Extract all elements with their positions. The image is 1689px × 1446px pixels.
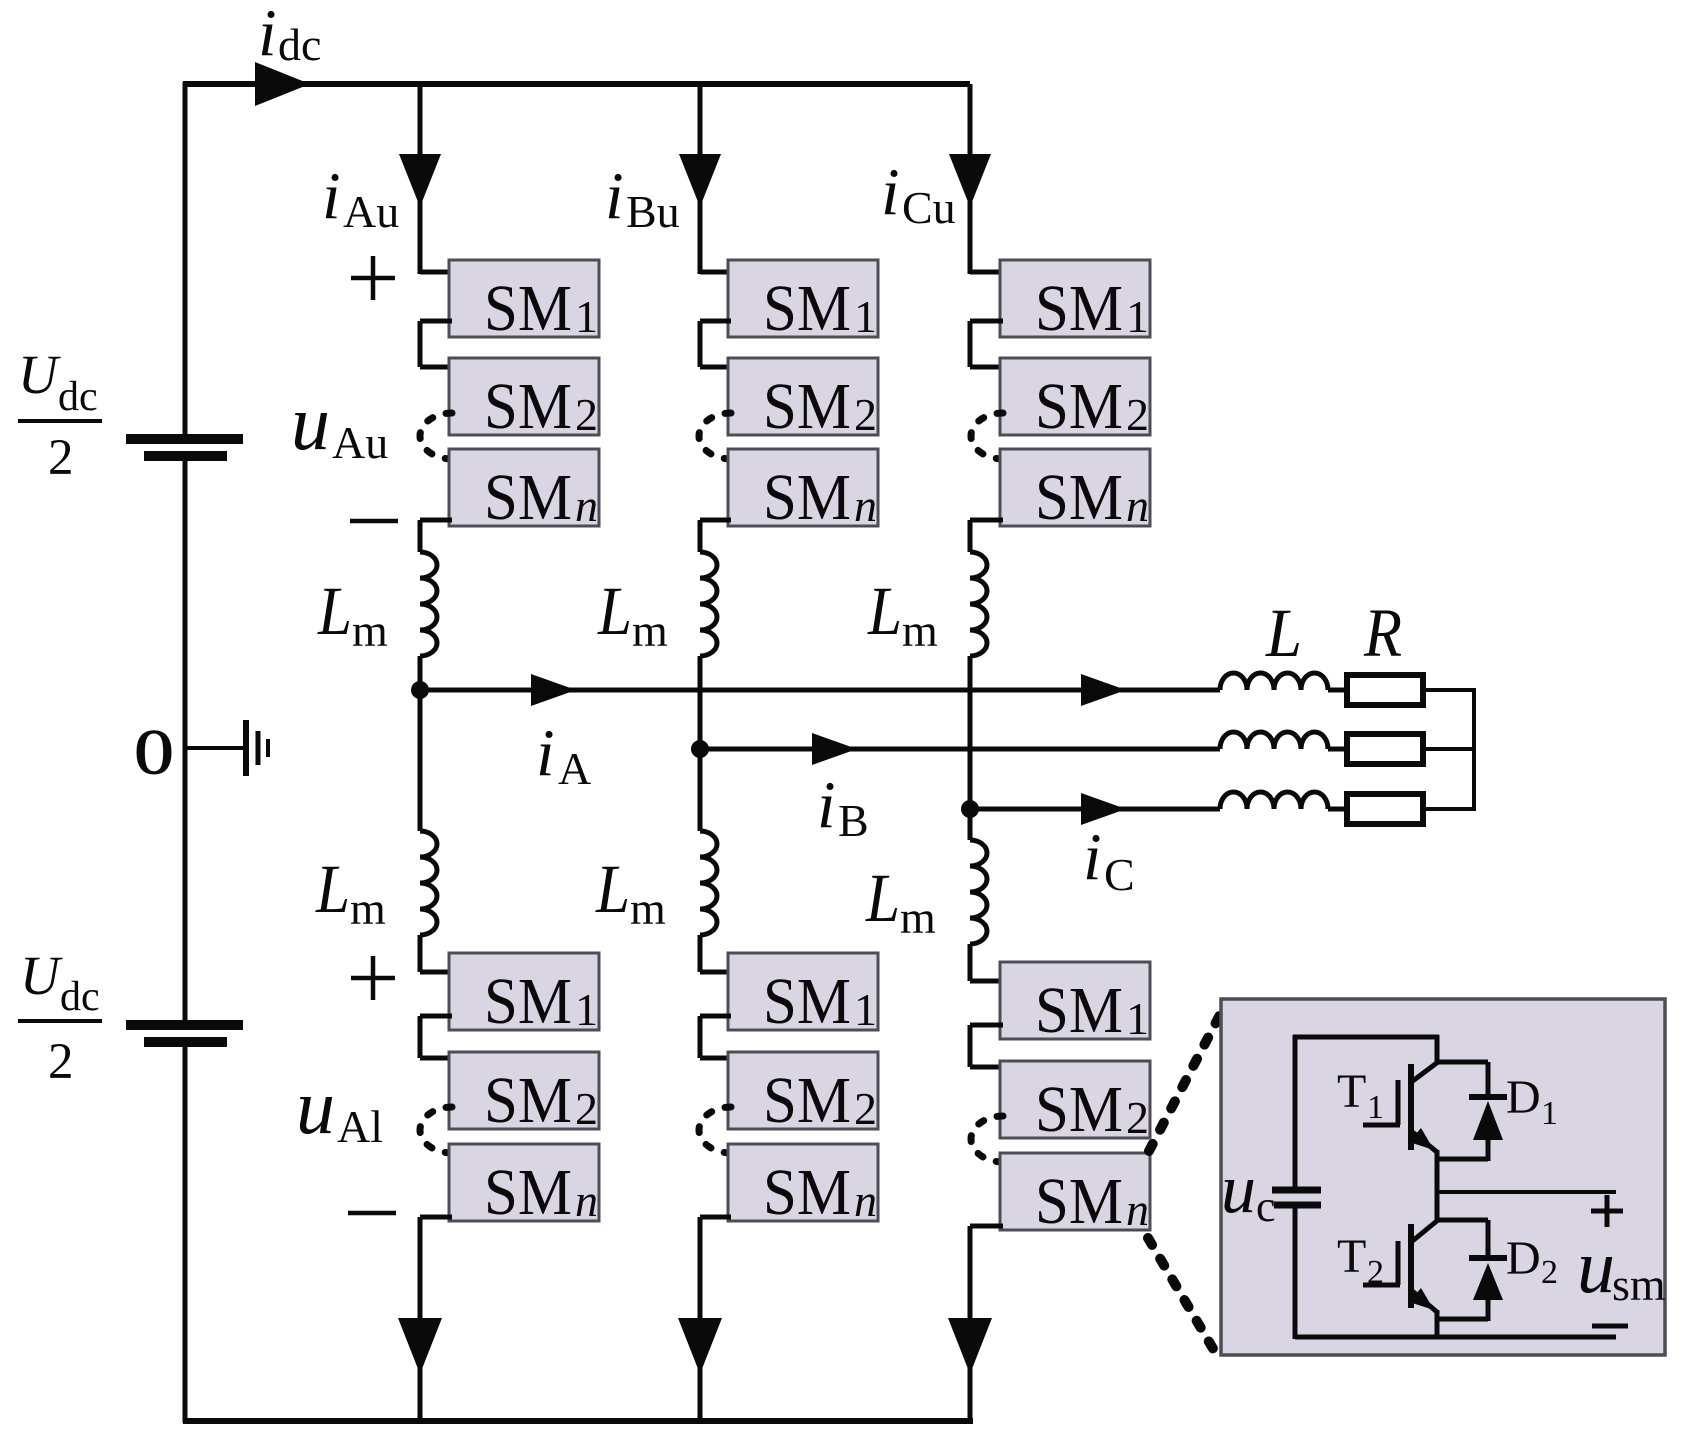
submodule SM1 lower A: [449, 953, 599, 1030]
wire SM1-SM2 upper C: [970, 319, 1003, 324]
svg-text:1: 1: [1367, 1089, 1384, 1126]
wire R to right bus A: [1423, 688, 1476, 692]
svg-text:u: u: [1221, 1151, 1256, 1228]
inductor Lm upper A: [420, 552, 437, 656]
svg-text:SM: SM: [484, 965, 572, 1038]
wire L to R C: [1328, 807, 1347, 812]
current arrow i_Cu: [949, 154, 991, 207]
dashed link SM2-SMn lower C: [971, 1116, 1003, 1162]
svg-text:1: 1: [1541, 1095, 1558, 1132]
wire SM1-SM2 upper A: [420, 319, 452, 324]
inductor Lm lower C: [970, 840, 987, 944]
svg-text:SM: SM: [763, 965, 851, 1038]
wire SMn to inductor upper B: [700, 518, 731, 523]
inset wire bottom rail: [1295, 1335, 1616, 1340]
dashed link SM2-SMn upper A: [420, 413, 452, 459]
svg-text:SM: SM: [484, 370, 572, 443]
transistor T2 emitter lead: [1435, 1310, 1440, 1339]
svg-text:1: 1: [1126, 993, 1149, 1044]
transistor T1 channel bar: [1408, 1064, 1414, 1150]
svg-text:1: 1: [575, 984, 598, 1035]
inductor L output B: [1220, 732, 1328, 749]
svg-text:SM: SM: [763, 272, 851, 345]
svg-text:2: 2: [854, 389, 877, 440]
resistor R output B: [1347, 734, 1423, 764]
svg-text:A: A: [558, 743, 591, 794]
svg-text:T: T: [1337, 1065, 1366, 1118]
svg-text:2: 2: [48, 430, 74, 486]
diode D2 lower lead: [1486, 1300, 1491, 1321]
wire R to right bus C: [1423, 807, 1476, 811]
svg-text:L: L: [315, 851, 350, 927]
current arrow i_Bu: [679, 154, 721, 207]
current arrow i_A: [531, 674, 576, 706]
wire node to inductor lower C: [968, 809, 973, 840]
svg-text:U: U: [20, 945, 63, 1006]
transistor T1 gate: [1396, 1080, 1401, 1125]
svg-text:i: i: [536, 716, 555, 790]
wire SMn to bottom bus A: [420, 1215, 452, 1220]
dashed link SM2-SMn lower A: [420, 1107, 452, 1153]
wire phase C upper arm from bus: [968, 84, 973, 274]
svg-text:i: i: [258, 0, 277, 70]
svg-text:2: 2: [575, 1083, 598, 1134]
wire L to R B: [1328, 747, 1347, 752]
resistor R output A: [1347, 675, 1423, 705]
svg-text:SM: SM: [484, 461, 572, 534]
svg-text:m: m: [900, 892, 936, 943]
wire output phase B: [700, 747, 1220, 752]
svg-text:SM: SM: [763, 461, 851, 534]
wire inductor to node A: [418, 656, 423, 690]
svg-text:L: L: [595, 851, 630, 927]
diode D1 lower lead: [1486, 1140, 1491, 1161]
current arrow phase A at load: [1081, 674, 1126, 706]
svg-text:U: U: [18, 344, 61, 405]
dashed pointer upper: [1149, 1009, 1223, 1151]
label + upper arm A: [351, 276, 395, 281]
submodule SMn upper A: [449, 449, 599, 526]
svg-text:L: L: [317, 573, 352, 649]
wire SM1-SM2 lower B: [700, 1014, 731, 1019]
svg-text:SM: SM: [1035, 272, 1123, 345]
label + lower arm A: [351, 976, 395, 981]
transistor T1 collector lead: [1435, 1035, 1440, 1064]
svg-text:SM: SM: [1035, 1073, 1123, 1146]
node A junction: [411, 681, 429, 699]
wire SM1-SM2 upper B: [700, 319, 731, 324]
wire R to right bus B: [1423, 747, 1476, 751]
wire bottom DC bus: [183, 1418, 973, 1424]
inductor L output C: [1220, 792, 1328, 809]
submodule SM2 lower C: [1000, 1061, 1150, 1138]
diode D1 branch: [1435, 1060, 1488, 1065]
wire inductor to SM1 lower B: [698, 935, 703, 972]
svg-text:Au: Au: [343, 186, 399, 237]
capacitor uc plates: [1272, 1187, 1321, 1194]
capacitor Udc/2 upper plate long: [126, 434, 243, 444]
submodule SMn upper C: [1000, 449, 1150, 526]
svg-text:n: n: [854, 480, 877, 531]
resistor R output C: [1347, 794, 1423, 824]
dashed link SM2-SMn upper B: [699, 413, 731, 459]
dashed link SM2-SMn lower B: [699, 1107, 731, 1153]
svg-text:SM: SM: [484, 1064, 572, 1137]
inductor Lm upper B: [700, 552, 717, 656]
transistor T1 emitter lead: [1435, 1150, 1440, 1194]
svg-text:2: 2: [854, 1083, 877, 1134]
wire SMn to inductor upper C: [970, 518, 1003, 523]
svg-text:m: m: [902, 605, 938, 656]
svg-text:n: n: [1126, 480, 1149, 531]
wire inductor to node C: [968, 656, 973, 809]
svg-text:D: D: [1506, 1071, 1541, 1124]
submodule SMn upper B: [728, 449, 878, 526]
submodule SM1 lower C: [1000, 962, 1150, 1039]
transistor T2 collector lead: [1435, 1190, 1440, 1222]
svg-text:B: B: [838, 795, 869, 846]
wire left DC bus middle: [183, 461, 188, 1020]
inductor L output A: [1220, 673, 1328, 690]
diode D2 cathode bar: [1469, 1255, 1507, 1261]
svg-text:2: 2: [48, 1034, 74, 1090]
svg-text:SM: SM: [1035, 370, 1123, 443]
current arrow i_dc: [255, 62, 310, 106]
svg-text:dc: dc: [58, 374, 98, 420]
wire node to inductor lower A: [418, 690, 423, 831]
wire output phase C: [970, 807, 1220, 812]
svg-text:m: m: [350, 883, 386, 934]
inset submodule box: [1221, 999, 1665, 1355]
svg-text:c: c: [1256, 1182, 1276, 1231]
svg-text:SM: SM: [484, 1156, 572, 1229]
svg-text:R: R: [1363, 595, 1402, 671]
wire into SM1 upper A: [420, 270, 452, 275]
svg-text:O: O: [134, 716, 174, 789]
svg-text:i: i: [1083, 820, 1102, 894]
wire output phase A: [420, 688, 1220, 693]
svg-text:i: i: [605, 159, 624, 233]
capacitor Udc/2 upper plate short: [144, 451, 227, 461]
svg-text:L: L: [1265, 595, 1302, 671]
svg-text:2: 2: [1367, 1254, 1384, 1291]
wire right return bus: [1472, 690, 1476, 809]
current arrow i_C: [1081, 793, 1126, 825]
svg-text:2: 2: [1126, 389, 1149, 440]
label + output: [1591, 1209, 1623, 1214]
svg-text:SM: SM: [763, 370, 851, 443]
inductor Lm upper C: [970, 552, 987, 656]
inset wire output mid: [1437, 1190, 1616, 1194]
inset wire capacitor bottom lead: [1293, 1208, 1298, 1339]
inset wire top rail: [1293, 1035, 1439, 1040]
transistor T2 emitter: [1411, 1290, 1437, 1312]
svg-text:dc: dc: [278, 19, 321, 70]
current arrow i_B: [812, 733, 857, 765]
submodule SM1 upper B: [728, 260, 878, 337]
transistor T1 emitter: [1411, 1131, 1437, 1152]
svg-text:1: 1: [1126, 291, 1149, 342]
inset wire capacitor top lead: [1293, 1035, 1298, 1188]
svg-text:sm: sm: [1612, 1259, 1666, 1310]
svg-text:i: i: [322, 159, 341, 233]
label - lower arm A: [348, 1211, 396, 1216]
svg-text:i: i: [817, 768, 836, 842]
submodule SMn lower C: [1000, 1153, 1150, 1230]
svg-text:dc: dc: [60, 974, 100, 1020]
current arrow i_Au: [399, 154, 441, 207]
submodule SM2 upper A: [449, 358, 599, 435]
label - output: [1592, 1324, 1628, 1329]
diode D2 branch: [1435, 1218, 1488, 1223]
svg-text:Bu: Bu: [626, 186, 680, 237]
transistor T2 gate: [1396, 1241, 1401, 1285]
wire into SM1 upper B: [700, 270, 731, 275]
diode D1 cathode bar: [1469, 1094, 1507, 1100]
svg-text:i: i: [881, 155, 900, 229]
svg-text:n: n: [575, 480, 598, 531]
svg-text:C: C: [1104, 849, 1135, 900]
wire into SM1 upper C: [970, 270, 1003, 275]
wire left DC bus lower: [183, 1047, 188, 1423]
submodule SM2 lower A: [449, 1052, 599, 1129]
wire top DC bus: [183, 81, 970, 87]
submodule SMn lower A: [449, 1144, 599, 1221]
wire SMn to bottom bus C: [970, 1224, 1003, 1229]
dashed link SM2-SMn upper C: [971, 413, 1003, 459]
submodule SM2 lower B: [728, 1052, 878, 1129]
svg-text:SM: SM: [1035, 1165, 1123, 1238]
submodule SM1 upper C: [1000, 260, 1150, 337]
svg-text:n: n: [854, 1175, 877, 1226]
wire node to inductor lower B: [698, 749, 703, 831]
ground symbol: [243, 720, 249, 776]
svg-text:SM: SM: [1035, 974, 1123, 1047]
svg-text:SM: SM: [763, 1156, 851, 1229]
svg-text:1: 1: [854, 984, 877, 1035]
current arrow lower C: [948, 1318, 992, 1374]
svg-text:u: u: [1577, 1225, 1615, 1309]
dashed pointer lower: [1148, 1238, 1215, 1352]
wire SMn to bottom bus B: [700, 1215, 731, 1220]
svg-text:L: L: [597, 573, 632, 649]
submodule SM1 lower B: [728, 953, 878, 1030]
node C junction: [961, 800, 979, 818]
svg-text:m: m: [352, 605, 388, 656]
node B junction: [691, 740, 709, 758]
wire SM1-SM2 lower A: [420, 1014, 452, 1019]
wire left DC bus upper: [183, 82, 188, 434]
svg-text:u: u: [291, 379, 330, 466]
wire inductor to SM1 lower C: [968, 944, 973, 981]
diode D1 triangle: [1473, 1101, 1503, 1140]
wire phase A upper arm from bus: [418, 84, 423, 274]
svg-text:D: D: [1506, 1232, 1541, 1285]
svg-text:SM: SM: [763, 1064, 851, 1137]
label - upper arm A: [350, 519, 398, 524]
svg-text:m: m: [630, 883, 666, 934]
svg-text:L: L: [867, 573, 902, 649]
submodule SM2 upper B: [728, 358, 878, 435]
svg-text:T: T: [1337, 1230, 1366, 1283]
svg-text:2: 2: [1126, 1092, 1149, 1143]
svg-text:m: m: [632, 605, 668, 656]
svg-text:Au: Au: [332, 417, 388, 468]
svg-text:2: 2: [1541, 1254, 1558, 1291]
submodule SM1 upper A: [449, 260, 599, 337]
svg-text:1: 1: [854, 291, 877, 342]
submodule SM2 upper C: [1000, 358, 1150, 435]
wire SMn to inductor upper A: [420, 518, 452, 523]
svg-text:n: n: [575, 1175, 598, 1226]
svg-text:SM: SM: [1035, 461, 1123, 534]
capacitor Udc/2 lower plate long: [126, 1020, 243, 1030]
wire L to R A: [1328, 688, 1347, 693]
wire inductor to SM1 lower A: [418, 935, 423, 972]
current arrow lower B: [678, 1318, 722, 1374]
svg-text:u: u: [296, 1063, 335, 1150]
wire phase B upper arm from bus: [698, 84, 703, 274]
svg-text:1: 1: [575, 291, 598, 342]
wire ground stub: [185, 746, 246, 750]
current arrow lower A: [398, 1318, 442, 1374]
wire inductor to node B: [698, 656, 703, 749]
capacitor Udc/2 lower plate short: [144, 1037, 227, 1047]
svg-text:L: L: [865, 860, 900, 936]
inductor Lm lower A: [420, 831, 437, 935]
svg-text:Cu: Cu: [902, 182, 956, 233]
svg-text:2: 2: [575, 389, 598, 440]
wire SM1-SM2 lower C: [970, 1023, 1003, 1028]
svg-text:n: n: [1126, 1184, 1149, 1235]
diode D2 triangle: [1473, 1263, 1503, 1300]
svg-text:SM: SM: [484, 272, 572, 345]
transistor T2 channel bar: [1408, 1224, 1414, 1308]
inductor Lm lower B: [700, 831, 717, 935]
submodule SMn lower B: [728, 1144, 878, 1221]
svg-text:Al: Al: [337, 1101, 383, 1152]
